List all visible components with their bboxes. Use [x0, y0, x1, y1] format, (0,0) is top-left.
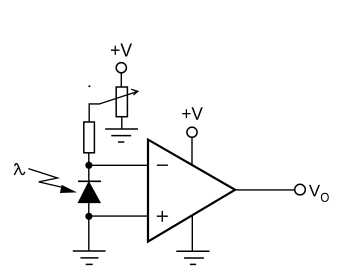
wire (terminal to op-amp top edge) — [191, 137, 193, 165]
op-amp plus sign — [157, 211, 168, 222]
ground (op-amp) — [176, 251, 209, 264]
ground (under potentiometer) — [105, 129, 138, 142]
light arrow (zigzag with filled head) — [28, 169, 77, 193]
photodiode D (triangle) — [78, 182, 100, 203]
wire (wiper lead to resistor top) — [89, 104, 100, 122]
terminal (output) — [295, 184, 306, 195]
potentiometer body — [116, 87, 127, 117]
wire (node A to op-amp inverting input) — [89, 164, 149, 166]
resistor R — [84, 122, 95, 153]
node A (junction dot) — [85, 162, 92, 169]
+V label (op-amp supply) — [182, 107, 203, 120]
ground (under photodiode) — [73, 251, 106, 264]
op-amp minus sign — [157, 164, 168, 166]
node B (junction dot) — [85, 213, 92, 220]
wire (photodiode anode to node B) — [88, 203, 90, 217]
+V label (potentiometer supply) — [111, 44, 132, 57]
wire (node A to photodiode cathode) — [88, 165, 90, 181]
wire (pot bottom to ground) — [121, 117, 123, 129]
terminal (op-amp +V) — [187, 127, 197, 137]
stray dot — [88, 85, 90, 87]
photodiode D (cathode bar) — [78, 180, 101, 182]
op-amp U1 (triangle) — [148, 140, 235, 242]
lambda label (light) — [15, 164, 25, 175]
wire (node B to op-amp non-inverting input) — [89, 215, 149, 217]
terminal (pot +V) — [116, 63, 126, 73]
wire (terminal to pot top) — [120, 73, 122, 87]
Vo label — [309, 185, 320, 197]
wire (resistor bottom to node A) — [88, 153, 90, 166]
potentiometer wiper arrow — [100, 89, 138, 104]
wire (op-amp output) — [235, 189, 295, 191]
wire (node B to ground) — [88, 216, 90, 251]
wire (op-amp bottom edge to ground) — [191, 215, 193, 251]
